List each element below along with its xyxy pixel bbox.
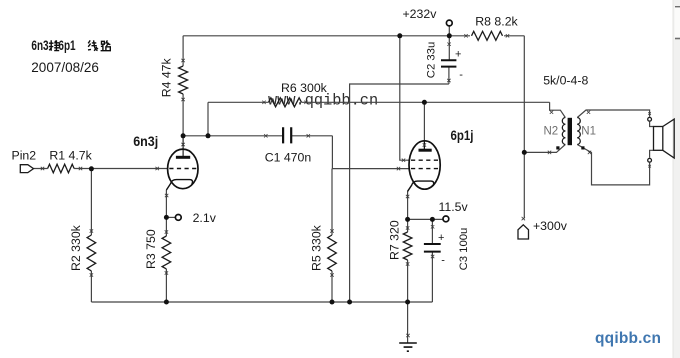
wire: R2 branch [90,169,92,303]
svg-text:R3 750: R3 750 [144,229,158,269]
svg-text:R8 8.2k: R8 8.2k [475,15,518,29]
capacitor C2 33u [441,60,456,66]
wire: g2 feed vertical [400,36,410,160]
node: C2 return ground [347,300,352,305]
wire: R4 branch vertical [182,36,184,136]
svg-text:11.5v: 11.5v [439,200,469,214]
svg-text:N1: N1 [581,126,596,138]
triode U1 6n3j [166,136,198,190]
svg-text:5k/0-4-8: 5k/0-4-8 [543,74,588,88]
svg-text:C3 100u: C3 100u [458,228,470,271]
resistor R2 330k [87,235,96,271]
wire: input grid line [34,168,168,170]
node: 6p1j cathode / R7 [405,217,410,222]
connector +300v [518,225,529,239]
svg-text:6p1: 6p1 [58,38,76,53]
wire: 6p1j cathode down + node [407,191,409,302]
capacitor C1 470n [283,127,291,143]
resistor R1 4.7k [48,164,75,173]
wire: right vertical B+ line [523,36,525,219]
wire: 6n3j plate node horizontal [183,135,283,137]
wire: OPT secondary top lead to speaker [577,110,649,118]
wire: R6 / plate-to-OPT line [208,101,550,103]
resistor R4 47k [179,66,188,94]
wire: OPT primary top lead [550,102,566,117]
node: R5 ground [330,300,335,305]
node: 6p1j plate / R6 [422,100,427,105]
wire: +232v top rail [183,35,470,37]
speaker LS1 [648,117,675,162]
node: 6n3j cathode [164,215,169,220]
wire: ground stem [407,302,409,343]
wire: 6p1j plate lead [423,102,425,149]
node: OPT primary bottom / +300v [522,150,527,155]
wire: ground rail [91,301,432,303]
resistor R6 300k [269,98,302,107]
svg-text:-: - [441,255,445,267]
wire: R5 branch [331,169,333,302]
node: R7 ground [405,300,410,305]
node: R3 ground [164,300,169,305]
scrollbar thumb [675,7,680,38]
terminal +232v [446,20,452,26]
wire: speaker top stub [650,122,654,127]
wire: 6n3j cathode down [165,190,167,302]
wire: 2.1v stub [166,216,175,218]
svg-text:qqibb.cn: qqibb.cn [595,330,661,347]
node: R6 branch [206,133,211,138]
terminal 11.5v [443,216,449,222]
svg-text:+: + [438,232,444,244]
wire: C3 branch [431,219,433,302]
wire: +232v terminal stub [448,26,450,36]
svg-text:R5 330k: R5 330k [309,224,323,271]
resistor R5 330k [328,235,337,271]
wire: C2 top lead [448,36,450,84]
svg-text:Pin2: Pin2 [12,149,37,163]
node: C3 top [430,217,435,222]
resistor R3 750 [162,236,171,269]
wire: OPT secondary bottom loop [577,145,649,185]
wire: C1 right to g1 node [332,136,409,169]
svg-text:R2 330k: R2 330k [69,224,83,271]
pentode U2 6p1j [408,141,441,192]
scrollbar track [673,0,680,358]
node: input / R2 [89,166,94,171]
svg-text:+: + [455,49,461,61]
svg-text:2.1v: 2.1v [193,211,217,225]
input connector Pin2 [20,165,33,173]
svg-text:R4 47k: R4 47k [159,57,173,97]
node: +232v / C2 / R8 [447,33,452,38]
svg-text:+300v: +300v [533,219,568,233]
wire: C2 ground return [350,84,449,302]
svg-text:R1 4.7k: R1 4.7k [49,149,92,163]
transformer secondary N1 [577,118,580,145]
wire: R6 left branch [207,102,209,136]
svg-text:6n3: 6n3 [31,38,49,53]
transformer core [568,118,572,145]
svg-text:6p1j: 6p1j [451,128,474,143]
wire: speaker bottom stub [650,150,654,158]
node: g2 feed on rail [397,33,402,38]
transformer phase dot N2 [556,146,559,149]
svg-text:R7 320: R7 320 [387,220,401,260]
svg-text:2007/08/26: 2007/08/26 [31,60,99,75]
capacitor C3 100u [424,244,441,252]
svg-text:R6 300k: R6 300k [281,81,328,95]
svg-text:-: - [459,69,463,81]
node: plate 6n3j / R4 [181,133,186,138]
wire: OPT primary bottom lead [524,145,565,153]
resistor R8 8.2k [472,31,503,40]
resistor R7 320 [403,232,412,260]
svg-text:C2 33u: C2 33u [425,42,437,78]
transformer T1 primary N2 [562,118,565,145]
transformer phase dot N1 [581,146,584,149]
svg-text:C1 470n: C1 470n [265,151,312,165]
terminal 2.1v [175,215,181,221]
svg-text:6n3j: 6n3j [133,134,158,149]
svg-text:+232v: +232v [403,7,438,21]
svg-text:N2: N2 [544,126,559,138]
ground [399,343,417,351]
